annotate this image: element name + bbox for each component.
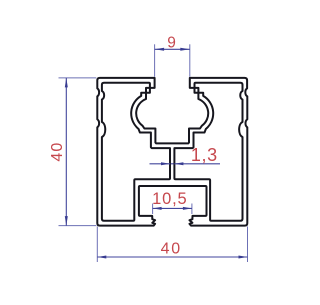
- dimension line through web gap: [171, 163, 174, 165]
- extension line top: [59, 77, 97, 79]
- dimension line 9: [155, 48, 190, 50]
- extension line bottom: [59, 225, 97, 227]
- arrow left: [155, 48, 165, 51]
- extension line right of slot: [189, 44, 191, 77]
- profile outer contour (40x40 rail cross-section): [97, 78, 247, 226]
- dimension line 40 horizontal: [97, 256, 247, 258]
- extension line right: [247, 227, 249, 263]
- extension line left: [96, 227, 98, 263]
- svg-text:1,3: 1,3: [191, 145, 218, 165]
- svg-text:10,5: 10,5: [152, 190, 187, 208]
- arrow right: [183, 207, 192, 210]
- left chamber cavity: [102, 83, 170, 221]
- arrow left: [153, 207, 162, 210]
- dimension 10,5 (bottom channel opening): [152, 190, 192, 214]
- arrow right: [180, 48, 190, 51]
- svg-text:40: 40: [161, 241, 182, 258]
- dimension 40 (left height): [49, 78, 96, 226]
- dimension line right tail: [174, 163, 220, 165]
- arrow pointing right at web: [161, 162, 170, 165]
- arrow down: [65, 216, 68, 226]
- right chamber cavity: [174, 83, 242, 221]
- dimension line 40 vertical: [65, 78, 67, 226]
- dimension 40 (bottom width): [97, 227, 247, 263]
- arrow up: [65, 78, 68, 88]
- dimension 9 (top slot opening): [155, 35, 190, 77]
- arrow pointing left at web: [174, 162, 183, 165]
- svg-text:9: 9: [167, 35, 176, 52]
- extension line left lip: [152, 204, 154, 215]
- arrow left: [97, 256, 106, 259]
- dimension line left tail: [150, 163, 171, 165]
- extension line right lip: [191, 204, 193, 215]
- svg-text:40: 40: [49, 142, 66, 162]
- extension line left of slot: [154, 44, 156, 77]
- dimension 1,3 (web thickness): [150, 145, 221, 166]
- arrow right: [239, 256, 248, 259]
- dimension line 10,5: [153, 207, 192, 209]
